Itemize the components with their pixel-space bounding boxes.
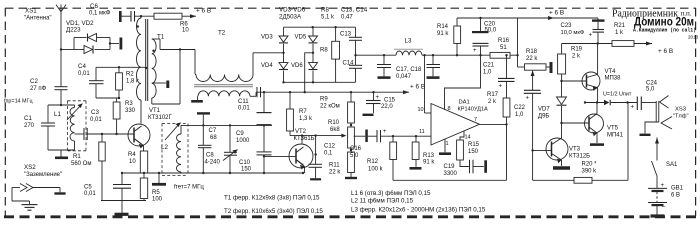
svg-text:С9: С9 [236, 131, 244, 137]
svg-text:L2: L2 [161, 144, 168, 151]
svg-text:С23: С23 [561, 23, 573, 29]
svg-text:МП41: МП41 [607, 133, 624, 139]
svg-text:fпр=14 МГц: fпр=14 МГц [4, 99, 33, 105]
svg-text:R8: R8 [321, 7, 329, 14]
svg-text:R8: R8 [320, 48, 328, 54]
svg-text:С21: С21 [483, 63, 495, 69]
svg-text:22,0: 22,0 [381, 104, 393, 110]
svg-text:С4: С4 [78, 63, 86, 70]
svg-text:11: 11 [419, 129, 425, 135]
svg-text:VT3: VT3 [569, 147, 581, 153]
svg-text:С22: С22 [514, 105, 526, 111]
svg-text:С11: С11 [238, 99, 249, 105]
svg-text:22 k: 22 k [526, 56, 538, 62]
svg-text:14: 14 [465, 135, 471, 141]
svg-text:10: 10 [182, 28, 189, 34]
svg-text:L1: L1 [54, 111, 61, 118]
svg-text:С1: С1 [24, 115, 32, 122]
svg-text:0,1 мкФ: 0,1 мкФ [89, 11, 111, 17]
svg-text:R12: R12 [367, 159, 379, 165]
svg-text:С13: С13 [340, 32, 352, 38]
svg-text:27 пФ: 27 пФ [30, 86, 47, 92]
svg-text:L3 ферр. К20х12х6 - 2000НМ: L3 ферр. К20х12х6 - 2000НМ (2х136) ПЭЛ 0… [351, 207, 486, 214]
svg-text:КР140УД1А: КР140УД1А [458, 107, 489, 113]
svg-text:С3: С3 [91, 109, 99, 116]
svg-text:fгет=7 МГц: fгет=7 МГц [174, 185, 204, 191]
svg-text:6k8: 6k8 [330, 127, 340, 133]
svg-text:5,1 k: 5,1 k [321, 15, 335, 21]
svg-text:150: 150 [241, 167, 252, 173]
svg-text:С8: С8 [206, 153, 214, 159]
svg-text:VD5: VD5 [295, 35, 307, 41]
svg-text:3300: 3300 [444, 171, 458, 177]
svg-text:2010: 2010 [688, 35, 699, 40]
svg-text:150: 150 [468, 149, 479, 155]
svg-text:R17: R17 [487, 92, 499, 98]
svg-text:5,0: 5,0 [646, 87, 655, 93]
svg-text:С2: С2 [30, 78, 38, 85]
svg-text:1 k: 1 k [615, 30, 624, 36]
svg-text:100 k: 100 k [368, 167, 384, 173]
svg-text:R21: R21 [614, 23, 626, 29]
svg-text:330: 330 [125, 108, 136, 114]
svg-text:0,01: 0,01 [84, 191, 96, 197]
svg-text:Д223: Д223 [66, 27, 81, 34]
svg-text:R5: R5 [152, 190, 160, 196]
svg-text:1,3 k: 1,3 k [299, 116, 313, 122]
svg-text:91 k: 91 k [437, 31, 449, 37]
svg-text:L2 11 ф6мм ПЭЛ 0,15: L2 11 ф6мм ПЭЛ 0,15 [351, 198, 414, 205]
svg-text:0,01: 0,01 [90, 117, 102, 123]
svg-text:390 k: 390 k [582, 169, 598, 175]
svg-text:Т2: Т2 [218, 30, 226, 37]
svg-text:С5: С5 [84, 185, 92, 191]
svg-text:0,47: 0,47 [341, 15, 353, 21]
svg-text:SA1: SA1 [666, 162, 678, 168]
svg-text:VD3: VD3 [261, 35, 273, 41]
svg-text:С19: С19 [444, 164, 456, 170]
svg-text:R10: R10 [328, 120, 340, 126]
svg-text:8: 8 [448, 106, 451, 112]
svg-text:VD3-VD6: VD3-VD6 [279, 7, 306, 14]
svg-text:91 k: 91 k [423, 160, 435, 166]
svg-text:С7: С7 [209, 128, 217, 134]
svg-text:10: 10 [129, 159, 136, 165]
svg-text:R7: R7 [299, 109, 307, 115]
svg-text:+ 6 В: + 6 В [658, 48, 673, 55]
svg-text:U=1/2 Uпит: U=1/2 Uпит [603, 92, 632, 98]
svg-text:6 В: 6 В [671, 193, 680, 199]
svg-text:1000: 1000 [236, 138, 250, 144]
svg-text:С15: С15 [384, 98, 396, 104]
svg-text:МП38: МП38 [605, 76, 622, 82]
svg-text:С6: С6 [90, 3, 98, 10]
svg-text:L3: L3 [405, 38, 412, 45]
svg-text:R11: R11 [329, 163, 340, 169]
svg-text:"Тлф": "Тлф" [673, 114, 689, 120]
svg-text:VD6: VD6 [291, 63, 303, 69]
svg-text:R9: R9 [320, 97, 328, 103]
svg-text:0,01: 0,01 [238, 106, 250, 112]
svg-text:R20 *: R20 * [582, 162, 598, 168]
svg-text:0,1: 0,1 [324, 151, 333, 157]
svg-text:С13, С14: С13, С14 [341, 7, 368, 14]
svg-text:R4: R4 [128, 152, 136, 158]
svg-text:4-240: 4-240 [205, 159, 221, 165]
svg-text:VD4: VD4 [261, 63, 273, 69]
svg-text:"Заземление": "Заземление" [24, 172, 62, 178]
svg-text:С20: С20 [484, 21, 496, 27]
svg-text:51: 51 [500, 45, 507, 51]
svg-text:R15: R15 [468, 142, 480, 148]
svg-text:XS3: XS3 [675, 107, 686, 113]
svg-text:С10: С10 [239, 160, 251, 166]
svg-text:L1 6 (отв.3) ф6мм ПЭЛ 0,15: L1 6 (отв.3) ф6мм ПЭЛ 0,15 [351, 190, 431, 197]
svg-text:R3: R3 [125, 101, 133, 107]
svg-text:Т1 ферр. К12х9х8 (3х8) ПЭЛ: Т1 ферр. К12х9х8 (3х8) ПЭЛ 0,15 [224, 195, 320, 202]
svg-text:R18: R18 [526, 49, 538, 55]
svg-text:+ 6 В: + 6 В [410, 84, 425, 91]
svg-text:+: + [631, 105, 635, 111]
svg-text:Т2 ферр. К10х6х5 (3х40) ПЭЛ: Т2 ферр. К10х6х5 (3х40) ПЭЛ 0,15 [224, 208, 323, 215]
svg-text:+: + [499, 84, 503, 90]
svg-text:+: + [383, 129, 387, 135]
svg-text:R2: R2 [126, 72, 134, 78]
svg-text:VT4: VT4 [605, 69, 617, 75]
svg-text:1,0: 1,0 [515, 112, 524, 118]
svg-text:1,0: 1,0 [483, 70, 492, 76]
svg-text:GB1: GB1 [671, 186, 684, 192]
svg-text:2 k: 2 k [488, 99, 497, 105]
svg-text:7: 7 [474, 117, 477, 123]
svg-text:2 k: 2 k [572, 54, 581, 60]
svg-text:XS2: XS2 [24, 164, 36, 171]
svg-text:КТ312Б: КТ312Б [569, 154, 590, 160]
svg-text:10,0 мкФ: 10,0 мкФ [561, 30, 585, 36]
svg-text:R1: R1 [73, 154, 81, 160]
svg-text:10: 10 [418, 107, 424, 113]
svg-text:R14: R14 [437, 24, 449, 30]
svg-text:+: + [473, 48, 477, 54]
svg-text:Д9Б: Д9Б [538, 114, 549, 120]
svg-text:+ 6 В: + 6 В [196, 8, 211, 15]
svg-text:270: 270 [24, 123, 35, 129]
svg-text:0,01: 0,01 [78, 71, 90, 77]
svg-text:VT1: VT1 [149, 108, 161, 114]
svg-text:С16: С16 [350, 146, 362, 152]
svg-text:R19: R19 [571, 47, 583, 53]
svg-text:Домино 20м: Домино 20м [634, 14, 694, 28]
svg-text:+: + [526, 96, 530, 102]
svg-text:VT2: VT2 [295, 129, 307, 135]
svg-text:+ 6 В: + 6 В [549, 10, 564, 17]
svg-text:R16: R16 [498, 38, 510, 44]
svg-text:С17, С18: С17, С18 [396, 67, 422, 73]
svg-text:"Антенна": "Антенна" [24, 16, 52, 22]
svg-text:КТ361Б: КТ361Б [294, 136, 315, 142]
svg-text:68: 68 [210, 135, 217, 141]
svg-text:5,0: 5,0 [350, 153, 359, 159]
svg-text:VT5: VT5 [607, 126, 619, 132]
svg-text:DA1: DA1 [459, 100, 470, 106]
svg-text:А.Камидуллин (по cal1): А.Камидуллин (по cal1) [633, 28, 696, 34]
svg-text:560 Ом: 560 Ом [71, 161, 91, 167]
svg-text:100: 100 [152, 197, 163, 203]
svg-text:2Д503А: 2Д503А [279, 14, 302, 21]
svg-text:22 k: 22 k [329, 170, 341, 176]
svg-text:+: + [589, 33, 593, 39]
svg-text:XS1: XS1 [25, 8, 37, 15]
svg-text:КТ3102Г: КТ3102Г [148, 115, 173, 121]
svg-text:VD7: VD7 [538, 107, 550, 113]
svg-text:1: 1 [446, 141, 449, 147]
svg-text:22 кОм: 22 кОм [320, 104, 340, 110]
svg-text:С12: С12 [324, 144, 336, 150]
svg-text:0,047: 0,047 [396, 74, 412, 80]
svg-text:R13: R13 [423, 153, 435, 159]
